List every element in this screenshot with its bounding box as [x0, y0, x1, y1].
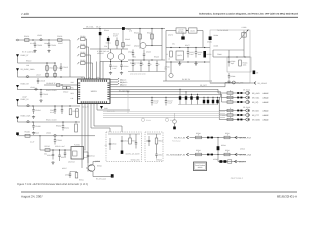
svg-text:R5536: R5536: [158, 139, 163, 142]
svg-text:1K: 1K: [168, 57, 171, 60]
svg-text:L5480: L5480: [242, 26, 247, 29]
svg-text:Schematics, Component Location: Schematics, Component Location Diagrams,…: [199, 13, 299, 16]
svg-text:5R_RXBE_SWB+: 5R_RXBE_SWB+: [21, 68, 35, 71]
svg-text:C: C: [150, 63, 152, 66]
svg-text:5R_MON: 5R_MON: [252, 118, 261, 121]
svg-text:RXBE_5R: RXBE_5R: [21, 83, 30, 86]
svg-text:5R: 5R: [256, 72, 259, 75]
svg-text:R5401: R5401: [24, 35, 29, 38]
svg-text:R5543: R5543: [225, 149, 230, 152]
svg-text:U5201: U5201: [91, 90, 98, 93]
svg-text:5R_DET: 5R_DET: [200, 84, 208, 87]
svg-text:5R_CSX: 5R_CSX: [120, 83, 127, 86]
svg-text:J0402-3: J0402-3: [262, 119, 268, 122]
svg-text:R5477: R5477: [185, 44, 190, 47]
svg-text:R5460: R5460: [134, 31, 139, 34]
svg-text:47K: 47K: [129, 30, 133, 33]
svg-text:C5537: C5537: [158, 154, 163, 157]
svg-text:ALT/RX_CH_MUTE: ALT/RX_CH_MUTE: [126, 152, 140, 155]
svg-text:VAG: VAG: [71, 81, 75, 84]
svg-text:R5465: R5465: [154, 56, 159, 59]
svg-text:5R_RX_FILT: 5R_RX_FILT: [240, 136, 252, 139]
svg-text:R5428: R5428: [73, 110, 78, 113]
svg-text:0.1uF: 0.1uF: [50, 111, 54, 114]
svg-text:5R_IF: 5R_IF: [96, 26, 101, 29]
svg-text:5R_SQ: 5R_SQ: [252, 101, 259, 104]
svg-text:C5513 0.1uF: C5513 0.1uF: [55, 145, 65, 148]
svg-text:C5545: C5545: [213, 158, 218, 161]
svg-text:C5403: C5403: [37, 44, 42, 47]
svg-text:C5406: C5406: [57, 35, 62, 38]
svg-text:Figure 7-103. HUF4017A Receiv: Figure 7-103. HUF4017A Receiver Back-End…: [17, 183, 88, 186]
svg-text:6816532H01-A: 6816532H01-A: [277, 195, 297, 199]
svg-text:J0402-2: J0402-2: [262, 114, 268, 117]
svg-text:10K: 10K: [26, 64, 30, 67]
svg-text:C5418: C5418: [40, 80, 45, 83]
svg-text:RXBE_5V: RXBE_5V: [21, 98, 30, 101]
svg-text:C5434: C5434: [64, 126, 69, 129]
svg-text:5R_AUD: 5R_AUD: [252, 92, 260, 95]
svg-text:R5521: R5521: [79, 178, 84, 181]
svg-text:C5476: C5476: [168, 33, 173, 36]
svg-text:R5461: R5461: [147, 31, 152, 34]
svg-text:R5452: R5452: [80, 51, 85, 54]
svg-text:R5421 C5423: R5421 C5423: [46, 89, 56, 92]
svg-text:R5410: R5410: [26, 60, 31, 63]
svg-text:R5540: R5540: [196, 132, 201, 135]
svg-text:5R_RX_LNA: 5R_RX_LNA: [240, 153, 252, 156]
svg-text:R5431 C5433: R5431 C5433: [46, 119, 56, 122]
svg-text:R5510: R5510: [45, 145, 50, 148]
svg-text:C5430: C5430: [35, 125, 40, 128]
svg-text:C5535: C5535: [146, 139, 151, 142]
svg-text:D5481: D5481: [207, 40, 212, 43]
svg-text:Front Panel: Front Panel: [172, 140, 181, 143]
svg-text:40000: 40000: [198, 166, 203, 169]
svg-text:LIM: LIM: [71, 97, 74, 100]
svg-text:R5484: R5484: [214, 34, 219, 37]
svg-text:TX RX SENSE: TX RX SENSE: [217, 29, 229, 32]
svg-text:L5417: L5417: [36, 74, 41, 77]
svg-text:Q5502: Q5502: [95, 160, 100, 163]
svg-text:C5531: C5531: [124, 139, 129, 142]
svg-text:5R J5401: 5R J5401: [243, 88, 250, 91]
svg-text:R5542: R5542: [196, 149, 201, 152]
svg-text:X2: X2: [88, 76, 90, 79]
svg-text:C5443: C5443: [34, 131, 39, 134]
svg-text:X1: X1: [81, 76, 83, 79]
svg-text:L5402: L5402: [37, 34, 42, 37]
svg-text:100pF: 100pF: [44, 42, 49, 45]
svg-text:C5441: C5441: [57, 139, 62, 142]
svg-text:C5473: C5473: [190, 51, 195, 54]
svg-text:5R J5402: 5R J5402: [243, 106, 250, 109]
svg-text:R5447: R5447: [126, 44, 131, 47]
svg-text:J0401-1: J0401-1: [262, 92, 268, 95]
svg-text:C5414: C5414: [123, 65, 128, 68]
svg-text:0.1uF: 0.1uF: [154, 102, 158, 105]
svg-text:L5442: L5442: [46, 131, 51, 134]
svg-text:R5483: R5483: [243, 62, 248, 65]
svg-text:RX_FILT_IN: RX_FILT_IN: [174, 136, 186, 139]
svg-text:C5445: C5445: [125, 38, 130, 41]
svg-text:R5520: R5520: [97, 165, 102, 168]
svg-text:GDPT-034-2: GDPT-034-2: [231, 177, 244, 180]
svg-text:0.1uF: 0.1uF: [30, 42, 34, 45]
svg-text:5R_FLT: 5R_FLT: [239, 160, 247, 163]
svg-text:R5451: R5451: [80, 43, 85, 46]
svg-text:5R_SENSE: 5R_SENSE: [258, 82, 268, 85]
svg-text:C5424: C5424: [35, 109, 40, 112]
svg-text:RX IF 44.85 MHZ: RX IF 44.85 MHZ: [22, 51, 35, 54]
svg-text:16.8MHZ IF: 16.8MHZ IF: [46, 82, 56, 85]
svg-text:D5544: D5544: [221, 144, 226, 147]
svg-text:5R_XTAL: 5R_XTAL: [86, 26, 94, 29]
svg-text:0.1uF: 0.1uF: [30, 141, 34, 144]
svg-text:SH5401 RX: SH5401 RX: [131, 158, 141, 161]
svg-text:0.1uF: 0.1uF: [112, 67, 116, 70]
svg-text:R5450: R5450: [80, 35, 85, 38]
svg-text:D5478: D5478: [207, 53, 212, 56]
svg-text:VIN: VIN: [172, 43, 176, 46]
svg-text:U5470: U5470: [179, 28, 184, 31]
svg-text:R5432: R5432: [56, 124, 61, 127]
svg-text:IFIN: IFIN: [71, 86, 75, 89]
svg-text:August 24, 2007: August 24, 2007: [21, 195, 43, 199]
svg-text:J0402-1: J0402-1: [262, 110, 268, 113]
svg-text:R5444: R5444: [104, 29, 109, 32]
svg-text:L5419: L5419: [30, 86, 35, 89]
svg-text:330: 330: [44, 152, 47, 155]
svg-text:RXBE_5T: RXBE_5T: [21, 54, 30, 57]
svg-text:5R_PTT: 5R_PTT: [252, 114, 260, 117]
svg-text:C5485: C5485: [214, 44, 219, 47]
svg-text:Q5460: Q5460: [134, 44, 139, 47]
svg-text:5V_RX/LNA/BUF_IN: 5V_RX/LNA/BUF_IN: [167, 153, 186, 156]
svg-text:5R_ATD: 5R_ATD: [237, 82, 244, 85]
svg-text:C5511: C5511: [47, 154, 52, 157]
svg-text:C5404: C5404: [51, 44, 56, 47]
svg-text:390: 390: [133, 56, 136, 59]
svg-text:R5532: R5532: [132, 139, 137, 142]
svg-text:R: R: [167, 53, 169, 56]
svg-text:C5517: C5517: [62, 167, 67, 170]
svg-text:C5514: C5514: [90, 155, 95, 158]
svg-text:C5474: C5474: [198, 51, 203, 54]
svg-text:RX BE 5V: RX BE 5V: [182, 78, 191, 81]
svg-text:5R_VOL: 5R_VOL: [252, 96, 259, 99]
svg-text:7-160: 7-160: [21, 12, 29, 16]
svg-text:FL5501: FL5501: [74, 144, 80, 147]
svg-text:0.1uF: 0.1uF: [168, 102, 172, 105]
svg-text:J0401-3: J0401-3: [262, 101, 268, 104]
svg-text:455 KHZ: 455 KHZ: [97, 52, 104, 55]
svg-text:C5486: C5486: [231, 75, 236, 78]
svg-text:C5463: C5463: [146, 50, 151, 53]
svg-text:C5530: C5530: [112, 142, 117, 145]
svg-text:C5462: C5462: [128, 50, 133, 53]
svg-text:C5471: C5471: [190, 29, 195, 32]
svg-text:SHIFT: SHIFT: [113, 35, 118, 38]
svg-text:450 KHZ: 450 KHZ: [68, 160, 75, 163]
svg-text:C5415: C5415: [63, 66, 68, 69]
svg-text:Q5472: Q5472: [177, 54, 182, 57]
svg-text:J0401-2: J0401-2: [262, 97, 268, 100]
svg-text:GND: GND: [104, 107, 109, 110]
svg-text:GND GND GND GND: GND GND GND GND: [130, 72, 146, 75]
svg-text:5R_MIC: 5R_MIC: [252, 109, 260, 112]
svg-text:RXBE_SW5: RXBE_SW5: [21, 114, 31, 117]
svg-text:C: C: [158, 63, 160, 66]
svg-text:A0 A1 A2: A0 A1 A2: [82, 106, 89, 109]
svg-text:22K: 22K: [104, 45, 108, 48]
svg-text:C5422: C5422: [63, 90, 68, 93]
svg-text:C5482: C5482: [231, 60, 236, 63]
svg-text:C5546: C5546: [240, 148, 245, 151]
svg-text:DEC: DEC: [71, 92, 75, 95]
svg-text:R5453: R5453: [80, 59, 85, 62]
svg-text:C5407: C5407: [58, 42, 63, 45]
svg-text:100pF: 100pF: [22, 95, 27, 98]
svg-text:F5480: F5480: [217, 53, 222, 56]
svg-text:R5541: R5541: [225, 132, 230, 135]
svg-text:R5490: R5490: [146, 119, 151, 122]
svg-text:C5420: C5420: [43, 93, 48, 96]
svg-text:R5440: R5440: [25, 130, 30, 133]
svg-text:RX_5R_AUD: RX_5R_AUD: [96, 178, 107, 181]
svg-text:SH5402: SH5402: [156, 158, 162, 161]
